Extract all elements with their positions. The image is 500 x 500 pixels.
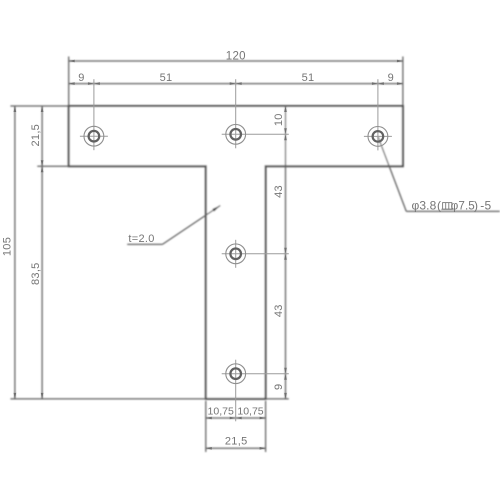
svg-text:φ3.8: φ3.8	[412, 199, 437, 213]
svg-text:21,5: 21,5	[30, 124, 42, 147]
svg-text:83,5: 83,5	[30, 262, 42, 285]
svg-text:): )	[474, 199, 478, 213]
svg-text:105: 105	[2, 237, 14, 256]
svg-text:21,5: 21,5	[225, 435, 248, 447]
svg-text:51: 51	[160, 72, 173, 84]
svg-text:-5: -5	[480, 199, 491, 213]
svg-text:φ7.5: φ7.5	[451, 200, 475, 213]
svg-text:43: 43	[273, 185, 285, 198]
svg-text:51: 51	[302, 72, 315, 84]
svg-text:9: 9	[78, 72, 84, 84]
svg-text:9: 9	[273, 384, 285, 390]
svg-text:120: 120	[226, 51, 246, 63]
svg-text:43: 43	[273, 304, 285, 317]
svg-text:9: 9	[388, 72, 394, 84]
svg-text:t=2.0: t=2.0	[128, 233, 154, 245]
svg-text:10,75: 10,75	[208, 405, 234, 417]
svg-text:10,75: 10,75	[237, 405, 263, 417]
svg-text:(: (	[437, 199, 441, 213]
svg-text:10: 10	[273, 113, 285, 126]
